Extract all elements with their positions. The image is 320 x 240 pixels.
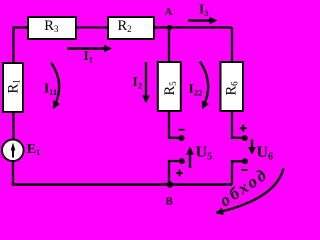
voltage U6 arrow <box>252 140 273 163</box>
wire R1 to source E1 <box>12 112 14 140</box>
minus sign U5 <box>179 129 185 131</box>
wire node A down to R5 <box>168 28 170 63</box>
resistor R5 <box>158 62 181 111</box>
plus sign U6 <box>240 125 247 132</box>
wire E1 to bottom <box>12 161 14 185</box>
wire R5 to top terminal <box>169 112 179 138</box>
loop current I22 curved arrow <box>189 62 209 109</box>
terminal dot U6 bottom <box>242 158 248 164</box>
minus sign U6 <box>242 169 248 171</box>
wire R2 to right corner <box>154 26 232 28</box>
svg-text:A: A <box>165 6 173 18</box>
loop current I11 curved arrow <box>44 63 59 109</box>
wire R6 to top terminal <box>232 112 242 138</box>
terminal dot U6 top <box>242 135 248 141</box>
current source E1 <box>2 140 40 162</box>
resistor R2 <box>108 17 154 39</box>
wire between R3 and R2 <box>76 27 108 29</box>
current I2 arrow <box>133 62 147 102</box>
voltage U5 arrow <box>190 144 212 168</box>
resistor R1 <box>3 63 23 112</box>
wire top-left corner <box>14 28 29 64</box>
resistor R3 <box>28 17 76 39</box>
plus sign U5 <box>176 170 183 177</box>
wire bottom-right corner up to terminal <box>232 161 242 184</box>
current I3 arrow <box>188 2 216 21</box>
traversal direction arc (obhod) <box>216 164 283 213</box>
wire bottom terminal to node B <box>169 161 179 185</box>
resistor R6 <box>221 62 244 111</box>
terminal dot U5 top <box>179 135 185 141</box>
svg-text:B: B <box>166 196 174 208</box>
bottom wire <box>12 183 232 186</box>
terminal dot U5 bottom <box>179 158 185 164</box>
current I1 arrow <box>67 48 111 65</box>
node B <box>167 181 173 187</box>
node A <box>167 25 172 30</box>
wire right corner down to R6 <box>231 28 233 63</box>
